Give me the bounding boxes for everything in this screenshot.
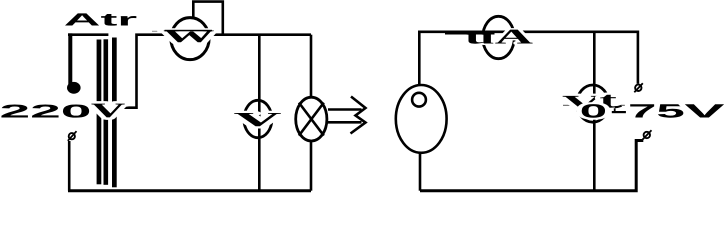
svg-text:0: 0 [580,101,607,122]
svg-text:V: V [91,100,126,122]
svg-text:V: V [234,109,284,131]
svg-text:75: 75 [628,101,686,122]
svg-text:W: W [163,26,216,46]
svg-text:uA: uA [465,24,535,48]
svg-text:V: V [684,101,724,122]
svg-text:Atr: Atr [64,9,138,29]
svg-text:220: 220 [0,100,91,121]
